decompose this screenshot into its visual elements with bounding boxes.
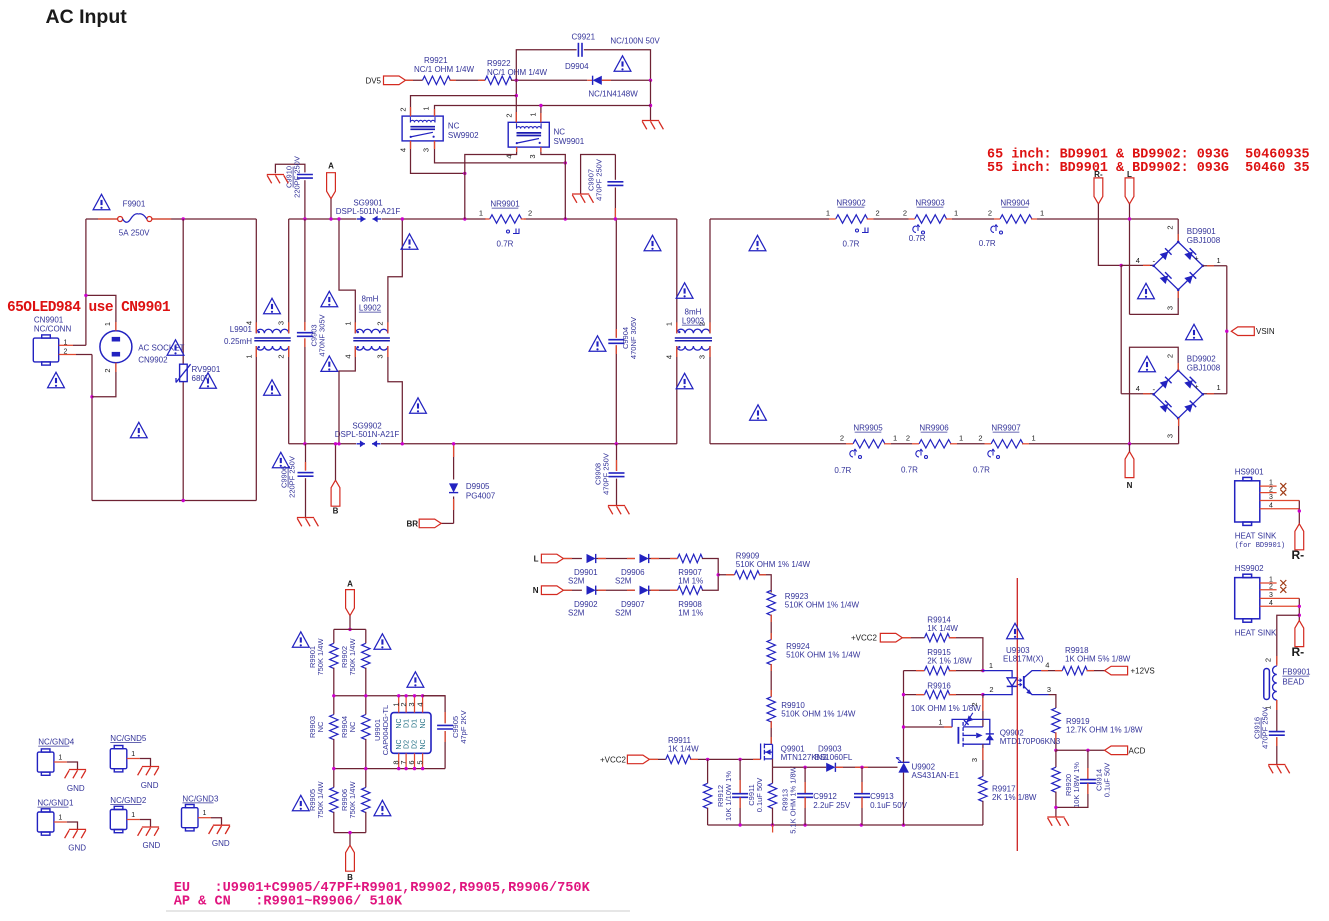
warning symbol [1186,324,1203,339]
node junction C9910 rail [303,217,306,220]
node junction B [348,831,351,834]
ground at C9907 [572,194,594,203]
wire D9901 to D9906 [596,558,635,560]
svg-text:S2M: S2M [615,577,632,586]
svg-text:R-: R- [1292,548,1305,562]
wire L9901 left vertical top [255,219,257,333]
wire +VCC2 to R9914 [902,637,924,639]
svg-text:NC: NC [420,739,427,749]
svg-text:4: 4 [1269,502,1273,509]
svg-text:2: 2 [376,321,385,325]
svg-text:1M 1%: 1M 1% [678,608,703,617]
wire U9902 vertical [903,671,905,763]
wire C9921 loop [516,50,576,81]
svg-text:0.1uF 50V: 0.1uF 50V [870,801,908,810]
node junction D9904 ground branch [649,79,652,82]
svg-text:AC Input: AC Input [46,6,128,28]
svg-text:65OLED984 use CN9901: 65OLED984 use CN9901 [7,300,171,316]
capacitor C9912 2.2uF 25V [804,767,806,793]
node junction fuse output [182,217,185,220]
svg-text:PG4007: PG4007 [466,492,496,501]
pin 7 U9901 [405,753,407,768]
wire R9918 to +12VS [1087,670,1105,672]
wire socket pin1 stub [115,322,117,331]
svg-text:1: 1 [826,209,830,218]
ground at NC/GND5 [138,767,160,776]
svg-text:750K 1/4W: 750K 1/4W [348,781,357,819]
svg-text:D2: D2 [412,740,419,749]
svg-text:SW9901: SW9901 [554,137,585,146]
port R- HS9901 [1295,524,1304,550]
svg-text:1: 1 [893,434,897,443]
node junction L-N rows [717,573,720,576]
resistor NR9903 0.7R [915,215,947,223]
svg-text:D1: D1 [412,719,419,728]
svg-text:0.7R: 0.7R [901,466,918,475]
svg-text:HEAT SINK: HEAT SINK [1235,532,1277,541]
svg-text:NC: NC [448,122,460,131]
svg-text:MTD170P06KN3: MTD170P06KN3 [1000,737,1061,746]
node junction network mid-upper [332,694,335,697]
svg-text:NC/GND5: NC/GND5 [110,734,147,743]
resistor R9907 1M 1% [678,554,703,562]
svg-text:1: 1 [479,209,483,218]
node junction R9920 C9914 bottom [1054,806,1057,809]
svg-text:NR9906: NR9906 [919,424,949,433]
pin 6 U9901 [414,753,416,768]
svg-text:8mH: 8mH [685,308,702,317]
svg-text:2: 2 [1269,584,1273,591]
capacitor C9904 470NF 305V [608,339,624,341]
svg-text:750K 1/4W: 750K 1/4W [316,781,325,819]
warning symbol [264,298,281,313]
capacitor C9913 0.1uF 50V [861,767,863,793]
svg-text:VSIN: VSIN [1256,327,1275,336]
wire network mid-upper rail [334,695,445,697]
connector CN9901 NC/CONN [33,335,58,365]
transistor Q9901 MTN127KN3 [761,744,773,761]
svg-text:4: 4 [245,321,254,325]
svg-text:5A 250V: 5A 250V [119,229,150,238]
svg-text:0.1uF 50V: 0.1uF 50V [755,778,764,813]
wire SW9901 pin1 stub [540,106,542,123]
svg-text:1: 1 [938,718,942,727]
ground at NC/GND3 [209,825,231,834]
pin 8 U9901 [398,753,400,768]
capacitor C9903 470NF 305V [297,332,313,334]
svg-text:510K OHM 1% 1/4W: 510K OHM 1% 1/4W [785,601,860,610]
svg-text:1: 1 [1217,383,1221,392]
node junction SW9901 pin3 on rail [564,217,567,220]
svg-text:NC/GND4: NC/GND4 [38,738,75,747]
separator red line [1016,578,1018,851]
wire CN9901 pin2 to bottom rail [91,355,93,501]
ground at D9904 [642,121,664,130]
svg-text:(for BD9901): (for BD9901) [1235,542,1285,550]
capacitor C9906 220PF 250V [298,472,314,474]
svg-text:+VCC2: +VCC2 [851,634,878,643]
spark gap SG9901 DSPL-501N-A21F [357,216,381,223]
svg-text:1: 1 [1040,209,1044,218]
svg-text:470PF 250V: 470PF 250V [602,453,611,495]
svg-text:L9901: L9901 [230,325,253,334]
node junction ACD [1054,749,1057,752]
node junction R9922 D9904 branch [515,79,518,82]
svg-text:1: 1 [203,810,207,817]
node junction C9914 top [1086,749,1089,752]
wire C9903 column [304,219,306,331]
svg-text:L: L [534,555,539,564]
fuse F9901 [98,218,120,220]
diode D9902 S2M [587,586,596,595]
warning symbol [589,336,606,351]
wire L9901 right vertical top [288,219,290,333]
wire C9907 branch [614,188,616,220]
wire network bottom rail [334,832,366,834]
svg-text:1K OHM 5% 1/8W: 1K OHM 5% 1/8W [1065,655,1131,664]
svg-text:220PF 250V: 220PF 250V [293,156,302,198]
svg-text:RV9901: RV9901 [192,365,221,374]
svg-text:750K 1/4W: 750K 1/4W [316,638,325,676]
svg-text:R9922: R9922 [487,59,511,68]
port BR [419,519,441,528]
svg-text:NC: NC [420,718,427,728]
pin 1 U9901 [398,696,400,713]
wire A to top rail [349,616,351,630]
resistor R9912 10K 1/10W 1% [707,759,709,783]
warning symbol [321,356,338,371]
svg-text:B: B [333,507,339,516]
resistor R9913 5.1K OHM 1% 1/8W [768,783,776,808]
svg-text:FB9901: FB9901 [1282,668,1311,677]
warning symbol [401,234,418,249]
svg-text:10K 1/10W 1%: 10K 1/10W 1% [724,771,733,821]
pin 1 NC/GND2 [127,819,140,821]
resistor R9923 510K OHM 1% 1/4W [767,590,775,615]
node junction network mid-lower [332,767,335,770]
wire R9923 to R9924 [770,615,772,640]
svg-text:S2M: S2M [568,577,585,586]
node junction SW pin1 line [649,104,652,107]
wire N row [563,589,582,591]
resistor R9916 10K OHM 1% 1/8W [904,694,925,696]
wire D9902 to D9907 [596,589,635,591]
wire SW9901 pin3 to rail [541,147,565,219]
svg-text:3: 3 [1047,685,1051,694]
wire D9904 ground vertical [650,80,652,120]
wire L9903 right vertical [709,219,711,333]
svg-text:2K 1% 1/8W: 2K 1% 1/8W [992,793,1037,802]
svg-text:1: 1 [1269,577,1273,584]
svg-text:L9902: L9902 [359,304,382,313]
svg-text:N: N [1127,481,1133,490]
wire R9907 corner [702,559,718,575]
svg-text:2: 2 [1166,354,1175,358]
warning symbol [749,235,766,250]
warning symbol [1139,356,1156,371]
svg-text:1: 1 [344,321,353,325]
svg-text:DSPL-501N-A21F: DSPL-501N-A21F [336,207,401,216]
resistor R9924 510K OHM 1% 1/4W [767,640,775,665]
resistor NR9904 0.7R [1000,215,1032,223]
warning symbol [48,372,65,387]
warning symbol [614,56,631,71]
svg-text:4: 4 [415,702,424,706]
pin 1 NC/GND4 [54,761,67,763]
wire middle bottom rail [289,443,356,445]
svg-text:1: 1 [529,112,538,116]
svg-text:NR9907: NR9907 [991,424,1021,433]
ferrite bead FB9901 [1276,656,1278,666]
svg-text:R9916: R9916 [927,682,951,691]
resistor R9917 2K 1% 1/8W [979,776,987,801]
pin 1 NC/GND1 [54,821,67,823]
svg-text:BS1060FL: BS1060FL [815,753,853,762]
wire BD9902 pin3 stub [1178,418,1180,444]
svg-text:470NF 305V: 470NF 305V [318,314,327,356]
wire B to bottom rail [349,833,351,846]
node junction C9912 top [803,766,806,769]
svg-text:S2M: S2M [615,608,632,617]
wire Q9902 pin2 vertical [982,695,984,727]
svg-text:D9905: D9905 [466,482,490,491]
wire R9909 corner to chain [759,575,771,593]
svg-text:0.25mH: 0.25mH [224,337,252,346]
port R- HS9902 [1295,621,1304,647]
pin 1 NC/GND3 [198,817,211,819]
svg-text:R-: R- [1094,170,1103,179]
resistor R9921 NC/1 OHM 1/4W [423,76,451,84]
svg-text:0.7R: 0.7R [834,466,851,475]
node junction C9911 [738,758,741,761]
svg-text:BEAD: BEAD [1282,678,1304,687]
svg-text:HS9902: HS9902 [1235,564,1264,573]
capacitor C9910 220PF 250V [297,174,313,176]
svg-text:2K 1% 1/8W: 2K 1% 1/8W [927,657,972,666]
ground at R9920 [1047,817,1069,826]
ground at NC/GND2 [138,827,160,836]
svg-text:4: 4 [1045,661,1049,670]
svg-text:2: 2 [970,702,979,706]
wire ACD line [1056,749,1105,751]
port B network [346,845,355,871]
svg-text:2: 2 [903,209,907,218]
node junction R- to bridges [1120,264,1123,267]
svg-text:470PF 250V: 470PF 250V [595,159,604,201]
wire to BD9902 pin4 [1121,393,1153,395]
wire SW9902 pin2 line [411,96,517,117]
svg-text:A: A [328,162,334,171]
wire BD9902 pin2 link [1130,347,1179,444]
svg-text:2: 2 [698,322,707,326]
resistor R9919 12.7K OHM 1% 1/8W [1052,708,1060,733]
relay SW9902 NC [402,116,443,141]
svg-text:NC/1 OHM 1/4W: NC/1 OHM 1/4W [414,65,474,74]
node junction gate line [902,725,905,728]
svg-text:C9912: C9912 [813,792,837,801]
capacitor C9905 47pF 2KV [437,724,453,726]
svg-text:DV5: DV5 [365,76,381,85]
wire SW9902 pin4 line [411,141,465,174]
pin 2 U9901 [405,696,407,713]
diode D9905 PG4007 [449,483,458,492]
svg-text:4: 4 [344,354,353,358]
svg-text:NC/GND1: NC/GND1 [37,799,74,808]
wire L9901 left vertical bottom [255,346,257,501]
optocoupler U9903 EL817M(X) [983,671,1049,695]
svg-text:2: 2 [978,434,982,443]
warning symbol [272,452,289,467]
node junction SW9901 pin1 [539,104,542,107]
wire C9906 column [305,444,307,471]
svg-text:BD9902: BD9902 [1187,355,1216,364]
svg-text:HS9901: HS9901 [1235,468,1264,477]
diode D9907 S2M [640,586,649,595]
ground at C9908 [608,506,630,515]
svg-text:NR9902: NR9902 [836,199,866,208]
wire network mid-lower rail [334,768,445,770]
svg-text:510K OHM 1% 1/4W: 510K OHM 1% 1/4W [736,560,811,569]
node junction C9904 bottom rail [615,442,618,445]
ground at C9910 [267,175,289,184]
svg-text:8mH: 8mH [362,295,379,304]
svg-text:1K 1/4W: 1K 1/4W [927,624,958,633]
bridge rectifier BD9901 GBJ1008 [1154,242,1203,290]
svg-text:1: 1 [58,815,62,822]
capacitor C9907 470PF 250V [607,181,623,183]
wire VSIN vertical [1226,266,1228,394]
pin 5 U9901 [422,753,424,768]
svg-text:CN9901: CN9901 [34,316,64,325]
svg-text:F9901: F9901 [123,200,146,209]
warning symbol [374,800,391,815]
integrated circuit U9901 CAP004DG-TL [391,713,431,754]
resistor R9910 510K OHM 1% 1/4W [767,697,775,722]
resistor R9901 750K 1/4W [333,629,335,643]
svg-text:EL817M(X): EL817M(X) [1003,655,1044,664]
wire middle top rail [289,218,357,220]
no-connect X pin1 HS9901 [1280,483,1286,489]
diode D9903 BS1060FL [826,763,835,772]
wire D9907 to R9908 [649,589,678,591]
wire DV5 to R9921 [406,79,423,81]
node junction C9913 top [860,766,863,769]
svg-text:5: 5 [415,760,424,764]
body diode Q9902 [986,734,994,740]
wire RV9901 branch vertical [182,219,184,364]
node junction R9912 [706,758,709,761]
svg-text:GBJ1008: GBJ1008 [1187,236,1221,245]
diode D9904 NC/1N4148W [587,79,592,81]
diode D9901 S2M [587,554,596,563]
svg-text:1M 1%: 1M 1% [678,577,703,586]
capacitor C9921 NC/100N 50V [577,43,579,57]
wire R9924 to R9910 [770,664,772,697]
svg-text:2.2uF 25V: 2.2uF 25V [813,801,851,810]
wire Q9902 pin3 down [982,744,984,776]
svg-text:5.1K OHM 1% 1/8W: 5.1K OHM 1% 1/8W [789,765,798,833]
wire C9905 branch [423,696,446,724]
svg-text:3: 3 [528,154,537,158]
svg-text:4: 4 [1136,384,1140,393]
wire +VCC2 to R9911 [649,758,665,760]
node junction VSIN [1225,330,1228,333]
wire L9901 right vertical bottom [288,346,290,444]
svg-text:NR9903: NR9903 [915,199,945,208]
svg-text:D9904: D9904 [565,62,589,71]
svg-text:3: 3 [1269,592,1273,599]
resistor R9914 1K 1/4W [925,634,950,642]
node junction R9916 line [902,693,905,696]
wire D9903 to U9902 [835,766,897,768]
svg-text:GND: GND [143,841,161,850]
wire R9911 to Q9901 gate [690,758,760,760]
transistor Q9902 MTD170P06KN3 [952,719,990,746]
svg-text:2: 2 [505,113,514,117]
wire R9921 to R9922 [450,79,486,81]
svg-text:470NF 305V: 470NF 305V [629,317,638,359]
wire C9904 column [615,219,617,338]
wire right bottom rail [710,443,846,445]
resistor NR9905 0.7R [853,440,885,448]
svg-text:GBJ1008: GBJ1008 [1187,364,1221,373]
svg-text:GND: GND [67,784,85,793]
port L top [1125,178,1134,204]
svg-text:NR9904: NR9904 [1000,199,1030,208]
svg-text:L: L [1127,170,1132,179]
svg-text:R-: R- [1292,645,1305,659]
no-connect X pin2 HS9902 [1280,587,1286,593]
wire L9902 pin4 jog [339,346,355,444]
no-connect X pin2 HS9901 [1280,490,1286,496]
ground at NC/GND4 [65,770,87,779]
wire L9902 pin3 jog [388,346,402,444]
svg-text:NR9901: NR9901 [490,200,520,209]
resistor NR9901 0.7R [490,215,522,223]
connector NC/GND5 [110,746,127,772]
svg-text:NR9905: NR9905 [853,424,883,433]
svg-text:3: 3 [277,321,286,325]
svg-text:1: 1 [245,354,254,358]
varistor RV9901 680V [180,364,188,381]
svg-text:CAP004DG-TL: CAP004DG-TL [381,705,390,755]
node junction socket pin2 [90,395,93,398]
wire opto pin3 to R9919 [1049,695,1056,708]
svg-text:CN9902: CN9902 [138,356,168,365]
connector HS9901 heat sink [1235,477,1260,525]
wire C9910 branch [304,180,306,219]
ground at NC/GND1 [65,829,87,838]
port +VCC2 second [880,633,902,642]
svg-text:D2: D2 [403,740,410,749]
wire network top rail [334,628,366,630]
wire L vertical to BD9901 pin3 [1129,204,1131,315]
wire opto pin4 to R9918 [1041,670,1062,672]
wire D9905 branch [453,444,455,480]
wire socket pin2 stub [115,363,117,372]
pin 3 HS9901 [1260,500,1300,502]
port +12VS [1105,666,1128,675]
svg-text:4: 4 [665,355,674,359]
svg-text:1: 1 [1217,256,1221,265]
warning symbol [1138,283,1155,298]
wire bottom rail left part [708,824,983,826]
wire D9906 to R9907 [649,558,678,560]
wire R- branch [1098,204,1121,266]
connector HS9902 heat sink [1235,574,1260,622]
svg-text:0.7R: 0.7R [909,234,926,243]
svg-text:+: + [1195,384,1199,391]
